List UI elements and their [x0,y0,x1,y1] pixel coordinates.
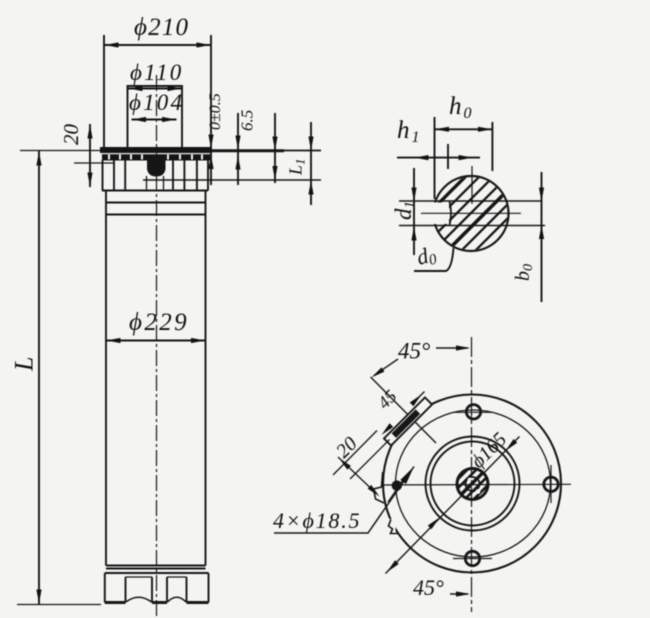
node: keyway slot bottom [450,202,452,226]
arrows: phi165 [504,439,518,453]
arrows: 45 pad dim [410,393,424,407]
wire: 20-dim lower reference line [74,162,114,164]
node: bottom rim segments [105,601,126,604]
node: center hub shaft [457,469,488,500]
wire: mid dimension vertical x275 [274,113,276,183]
wire: pad edge extension lines to SW [333,431,377,476]
wire: leader from 4xphi18.5 [274,467,414,534]
wire: d1 dimension vertical [413,168,415,255]
arrows: phi210 [105,42,119,47]
wire: right hole vertical tick [550,465,552,503]
wire: 20 dimension line (NW-SE) [338,457,381,498]
svg-text:45°: 45° [398,339,430,364]
node: keyway slot (white) [430,203,449,225]
node: rib section below flange [102,160,104,191]
svg-text:ϕ104: ϕ104 [129,90,184,115]
node: bolt hole left (filled) [392,480,402,490]
node: motor body cylinder sides [105,191,107,566]
svg-text:45: 45 [374,386,401,413]
node: cable entry black blob [147,158,166,177]
wire: 45deg diagonal (phi165 dim line, NE-SW) [386,437,520,574]
arrows: 6.5 [235,136,240,150]
wire: L dimension line [38,151,40,604]
wire: L1 dimension vertical [310,122,312,205]
wire: 45-dim extension tick beyond pad [412,392,425,405]
arrows: phi110 [129,86,143,91]
wire: flange face line extending right [212,149,284,152]
wire: phi229 dimension line [106,340,206,342]
arrows: x275 [272,137,277,151]
svg-text:ϕ210: ϕ210 [134,14,189,41]
arrows: 20 pad dim [337,456,351,469]
wire: centerline of motor body (dash-dot) [156,75,158,616]
wire: horizontal centerline of flange [380,483,571,486]
node: spigot ring inner [431,442,515,526]
svg-text:ϕ165: ϕ165 [467,428,511,472]
node: outline notch 1 (left) [374,472,385,503]
node: terminal pad on rim (45deg bar) [384,397,432,445]
svg-text:ϕ229: ϕ229 [129,309,189,336]
wire: h0 right extension [491,122,493,171]
wire: phi210 dimension line [104,44,211,46]
arrows: bottom 45deg [456,591,470,596]
svg-text:h1: h1 [397,117,420,146]
arrows: h0 [435,127,449,132]
node: hatching [392,142,542,292]
arrows: 18.5 leader [400,464,417,484]
node: flange outer circle [383,395,561,573]
wire: bolt circle [396,410,551,557]
svg-text:d0: d0 [414,241,439,272]
wire: h0 left extension [434,117,436,199]
node: bottom feet notches [125,577,127,603]
node: motor body top rings [102,190,208,192]
node: notch bottom arcs [126,597,152,602]
wire: bottom reference line for L [17,604,101,606]
node: hub keyway white notch [468,478,473,483]
wire: phi210 right extension line [210,35,212,185]
wire: phi104 dimension line [132,119,177,121]
svg-text:L: L [10,357,39,372]
svg-text:20: 20 [332,433,362,463]
svg-text:d1: d1 [391,201,418,220]
wire: 20 dimension vertical [89,124,91,187]
svg-text:20: 20 [59,124,83,146]
wire: vertical centerline of flange [471,337,473,612]
arrows: phi229 [107,338,121,343]
node: flange top plate (thick band) [100,147,212,153]
arrows: L top and bottom [36,152,41,166]
wire: lower chord line [399,225,545,227]
arrows: phi104 [132,117,146,122]
arrows: b0 [539,188,544,202]
wire: 6.5 dimension vertical [237,113,239,185]
node: outline notch 2 (lower-left) [389,520,398,534]
svg-text:6.5: 6.5 [238,110,257,131]
svg-text:ϕ110: ϕ110 [130,60,184,85]
wire: top hole horizontal tick [453,411,493,413]
wire: bottom 45deg dim leader [450,593,468,595]
arrows: d1 [411,188,416,202]
wire: 135deg diagonal ray through pad [371,377,436,443]
svg-text:h0: h0 [449,93,472,122]
wire: horizontal centerline of section [421,212,521,214]
wire: section vertical centerline ext [471,166,473,204]
arrows: 0+-0.5 [208,135,213,149]
wire: bottom hole horizontal tick [453,558,492,560]
node: bolt hole bottom [465,551,479,565]
node: bottom cap rings [106,565,206,567]
node: shaft boss outline [128,86,183,147]
wire: d0 leader [414,248,454,271]
wire: phi210 left extension line [103,35,105,148]
wire: flange face line extending left [20,150,100,152]
wire: b0 dimension vertical [541,172,543,302]
node: shaft section circle [434,176,509,251]
node: bolt hole right [544,477,558,491]
svg-text:b0: b0 [512,264,536,281]
node: bolt hole top [466,405,480,419]
svg-text:L1: L1 [286,158,308,176]
svg-text:4×ϕ18.5: 4×ϕ18.5 [273,508,361,533]
wire: left hole diagonal tick [388,477,406,503]
wire: h1 dimension line [397,157,480,159]
wire: upper chord line [399,200,542,202]
wire: top 45deg slant to diagonal arrow [374,359,398,376]
node: bottom cap sides [104,573,106,603]
wire: phi110 dimension line [128,88,182,90]
arrows: 20 dim left [87,125,92,139]
wire: h0 dimension line [435,128,493,130]
arrows: L1 [308,137,313,151]
wire: shaft end face line y180 [143,179,321,181]
wire: top 45deg dim leader to centerline [436,347,468,349]
node: flange lower band with stud marks [102,154,210,160]
svg-text:0±0.5: 0±0.5 [207,93,224,130]
wire: slot-bottom extension vertical [447,144,449,169]
arrows: h1 [415,155,429,160]
svg-text:45°: 45° [413,575,444,600]
arrows: top 45deg [456,345,470,350]
node: spigot ring outer [426,437,520,531]
